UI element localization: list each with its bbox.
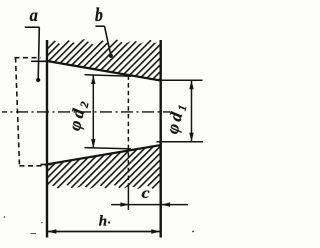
bottom taper boundary (slant)	[47, 145, 161, 164]
dot after h label	[108, 221, 110, 223]
dimension phi d1 line	[191, 81, 193, 142]
scan speck bottom left	[4, 216, 6, 218]
phi d1 top arrowhead	[189, 80, 193, 89]
dimension h line	[47, 231, 161, 233]
top hatched block (sectioned material above taper)	[47, 39, 161, 81]
dimension c line	[111, 204, 188, 206]
label b underline	[96, 25, 105, 27]
dashed gauge outline left edge	[16, 58, 20, 167]
top taper boundary (slant)	[47, 61, 161, 81]
c right arrowhead (pointing left at right face)	[161, 202, 170, 206]
phi d1 bottom arrowhead	[189, 133, 193, 142]
scan speck bottom right	[192, 231, 194, 233]
dashed gauge outline top edge	[15, 57, 41, 59]
svg-text:a: a	[30, 5, 39, 25]
right face line of part	[159, 40, 161, 238]
horizontal centerline (dash-dot)	[2, 111, 170, 113]
h right arrowhead	[151, 229, 160, 233]
dashed gauge outline bottom edge	[20, 165, 46, 167]
phi d2 top arrowhead	[91, 75, 95, 84]
phi d2 bottom arrowhead	[91, 139, 95, 148]
phi d1 top extension line	[156, 79, 203, 81]
phi d1 bottom extension line	[157, 141, 204, 143]
phi d2 bottom extension tick	[85, 148, 132, 149]
svg-text:b: b	[95, 5, 103, 25]
phi d2 top extension tick	[85, 75, 132, 77]
svg-text:h: h	[99, 213, 107, 229]
vertical dashed line at gauge plane	[127, 75, 129, 185]
c left arrowhead (pointing right at gauge plane line)	[120, 202, 129, 206]
label a leader dot	[36, 78, 40, 82]
label b leader dot	[109, 54, 113, 58]
bottom slant overshoot tick	[41, 164, 52, 166]
h left arrowhead	[48, 229, 57, 233]
label a underline	[25, 26, 40, 28]
bottom hatched block (sectioned material below taper)	[47, 145, 161, 189]
label b leader	[105, 26, 111, 54]
label a leader	[38, 27, 39, 78]
left face line of part	[46, 40, 48, 238]
dimension phi d2 line	[92, 75, 94, 148]
scan speck near left face	[41, 222, 42, 223]
svg-text:c: c	[142, 184, 151, 202]
solid extension of gauge plane line below hatch	[127, 185, 129, 210]
top slant overshoot tick	[31, 60, 49, 62]
scan speck dash bottom left	[31, 233, 37, 235]
